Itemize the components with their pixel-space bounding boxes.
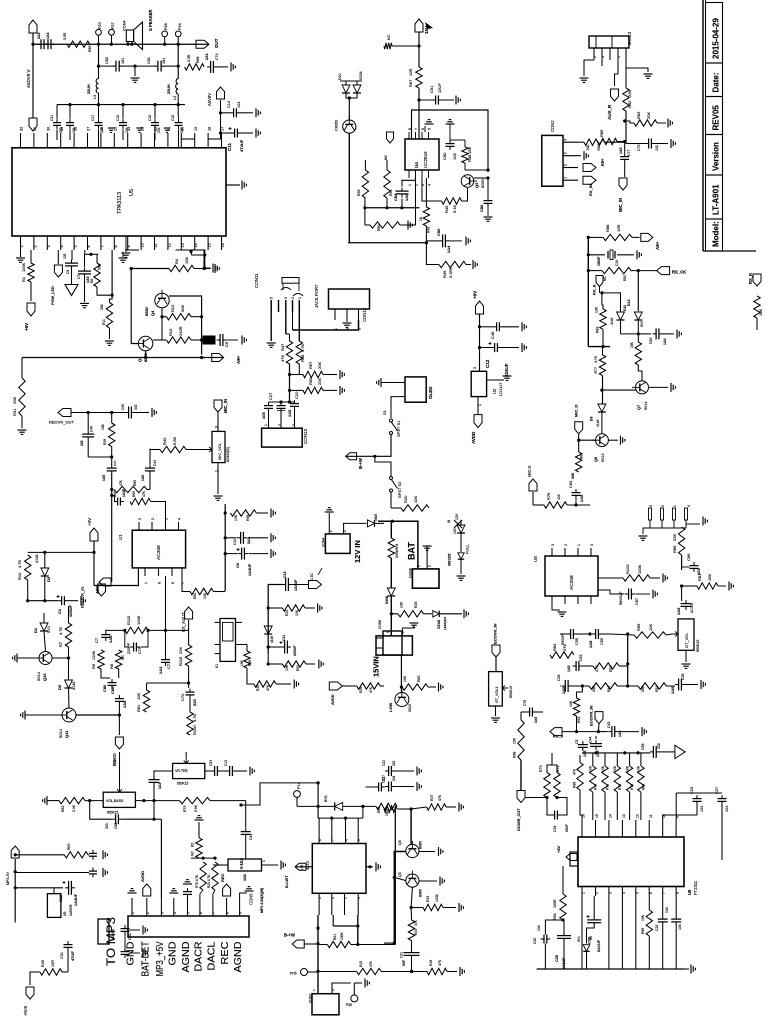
svg-text:NC: NC — [191, 851, 195, 856]
svg-text:A9+: A9+ — [655, 241, 660, 250]
connector CON10 pins — [649, 508, 652, 520]
capacitor C11b 220UF — [268, 646, 281, 648]
capacitor C60 1A5 — [115, 698, 124, 700]
ground under GT_VOL1 — [495, 706, 497, 716]
svg-text:REC: REC — [220, 942, 231, 965]
svg-text:S1: S1 — [382, 409, 387, 415]
connector CON5 — [128, 916, 249, 937]
switch S1 SPST — [390, 419, 393, 422]
svg-text:MIC_D: MIC_D — [574, 404, 579, 417]
resistor R87 33K — [576, 452, 582, 472]
svg-text:1A4F: 1A4F — [122, 489, 126, 497]
svg-text:C5: C5 — [224, 341, 229, 347]
svg-text:B-LWT: B-LWT — [284, 875, 289, 888]
svg-text:1: 1 — [478, 404, 482, 406]
svg-text:1A4: 1A4 — [663, 339, 667, 345]
capacitor C7 1A5 — [84, 250, 86, 254]
svg-text:Q4: Q4 — [150, 310, 155, 316]
svg-text:2: 2 — [291, 297, 295, 299]
svg-text:30: 30 — [47, 127, 51, 131]
svg-text:9013: 9013 — [408, 704, 412, 712]
svg-text:8: 8 — [158, 582, 162, 584]
capacitor C62 47UF — [64, 944, 73, 946]
resistor R81 15K — [697, 583, 718, 589]
resistor R1 100K — [30, 250, 32, 263]
svg-text:MP3-5V: MP3-5V — [6, 871, 10, 885]
svg-text:CON11: CON11 — [254, 273, 259, 288]
resistor R47 47K — [286, 341, 292, 364]
display OLED — [405, 377, 426, 402]
diode BV2 — [335, 802, 343, 810]
svg-text:223: 223 — [392, 760, 396, 766]
wire feed from VR_TRE — [241, 783, 318, 805]
IC U4 UC2843 — [405, 139, 439, 170]
svg-text:10K: 10K — [758, 309, 763, 316]
svg-text:47K: 47K — [266, 684, 270, 691]
svg-text:4.7K: 4.7K — [58, 626, 63, 635]
resistor R10 4.7K — [28, 551, 45, 553]
svg-text:NC: NC — [603, 276, 607, 281]
svg-text:850K15: 850K15 — [509, 686, 513, 698]
svg-text:4T4UF: 4T4UF — [239, 139, 244, 152]
svg-text:R39: R39 — [103, 439, 107, 445]
net OUT flag — [196, 40, 209, 48]
capacitor C23 104 — [693, 798, 702, 800]
wire MP3_+5V long — [154, 818, 161, 820]
svg-text:1: 1 — [577, 544, 581, 546]
svg-text:15VIN: 15VIN — [372, 656, 381, 677]
svg-text:1A5: 1A5 — [561, 686, 566, 694]
svg-text:19: 19 — [194, 127, 198, 131]
svg-text:2: 2 — [146, 912, 150, 914]
wire R73 R72 tops — [547, 765, 557, 773]
capacitor C27 105 — [264, 405, 273, 407]
jack port connector CON12 — [329, 289, 370, 309]
svg-text:2: 2 — [593, 56, 597, 58]
svg-text:15K: 15K — [101, 423, 105, 430]
svg-text:CON12: CON12 — [362, 307, 367, 322]
net A9+ flag — [146, 351, 224, 358]
capacitor C79 220PF — [133, 643, 135, 652]
IC U5 TPA3113 body — [12, 148, 226, 236]
svg-text:223: 223 — [192, 699, 197, 706]
wire R70 R23 row — [191, 857, 217, 859]
svg-text:K0463[B]: K0463[B] — [226, 447, 230, 462]
svg-text:220UF: 220UF — [293, 645, 297, 656]
net REOVR_OUT flag — [58, 409, 71, 417]
svg-text:1: 1 — [298, 297, 302, 299]
svg-text:1A3: 1A3 — [158, 666, 163, 674]
svg-text:0UF: 0UF — [402, 960, 406, 966]
svg-text:C53: C53 — [209, 760, 213, 766]
transistor Q10 9014 — [36, 652, 53, 665]
svg-text:U2: U2 — [492, 388, 497, 394]
net REOVR_IN flag — [99, 578, 111, 586]
U4 pins top — [408, 132, 410, 139]
resistor R48 15K — [462, 147, 468, 163]
resistor R36 — [384, 170, 390, 198]
resistor R27 47K — [427, 804, 446, 810]
svg-text:12V IN: 12V IN — [353, 540, 362, 563]
svg-text:1: 1 — [312, 989, 316, 991]
svg-text:C43: C43 — [153, 460, 157, 466]
svg-text:4.7K: 4.7K — [595, 664, 599, 672]
svg-text:7: 7 — [662, 892, 666, 894]
svg-text:R60: R60 — [308, 377, 313, 385]
ground right of R83 — [657, 122, 666, 124]
resistor R81b 10K — [143, 690, 149, 712]
wire caps rail — [269, 401, 295, 403]
OLED pin2 wire — [391, 397, 405, 418]
svg-text:CON13: CON13 — [303, 428, 308, 444]
transistor Q3 8050 — [461, 175, 477, 188]
svg-text:20K: 20K — [646, 112, 651, 119]
wires caps to CON13 — [268, 411, 270, 428]
svg-text:100K: 100K — [136, 615, 141, 625]
svg-text:10R: 10R — [51, 960, 55, 967]
diode D12 4148 — [617, 312, 625, 320]
svg-text:R2: R2 — [191, 843, 195, 847]
svg-text:10K: 10K — [136, 693, 141, 700]
svg-text:AGND: AGND — [233, 942, 244, 973]
ground under C7 — [84, 277, 86, 302]
svg-text:R81: R81 — [697, 573, 702, 581]
transistor Q2 C8050 — [348, 98, 350, 120]
wire R56 to pot arrow — [666, 634, 672, 635]
speaker CON4 — [126, 30, 133, 42]
pot VR_TRE — [173, 763, 205, 778]
net 15V flag — [415, 19, 423, 32]
resistor R12 30K — [166, 314, 191, 320]
ground right of C83b — [662, 333, 674, 335]
svg-text:REOVR_OUT: REOVR_OUT — [49, 420, 74, 425]
wire CON12 pin3 loop — [293, 320, 359, 330]
net B-+W flag 2 — [292, 940, 304, 948]
capacitor row2 — [15, 872, 89, 874]
pot VOL_BASS — [103, 792, 135, 807]
svg-text:100K: 100K — [435, 893, 439, 902]
svg-text:15K: 15K — [707, 574, 712, 581]
svg-text:B-+W: B-+W — [284, 933, 295, 938]
svg-text:RTE: RTE — [630, 784, 634, 790]
svg-text:MP3_+5V: MP3_+5V — [155, 941, 166, 976]
svg-text:R8: R8 — [90, 279, 94, 283]
svg-text:15K: 15K — [513, 737, 517, 744]
svg-text:DC05R_OUT: DC05R_OUT — [517, 808, 521, 831]
capacitor C44 — [590, 743, 602, 745]
svg-text:R92: R92 — [623, 275, 627, 281]
svg-text:102: 102 — [655, 145, 659, 151]
net RX_IN flag — [583, 176, 596, 184]
svg-text:3: 3 — [601, 56, 605, 58]
svg-text:22K: 22K — [178, 647, 183, 654]
svg-text:C17: C17 — [91, 115, 95, 121]
svg-text:11: 11 — [154, 244, 158, 248]
svg-text:C20: C20 — [294, 391, 299, 399]
svg-text:R15: R15 — [359, 961, 363, 967]
resistor R66b 15K — [648, 896, 650, 910]
svg-text:R52: R52 — [577, 717, 581, 723]
svg-text:181: 181 — [121, 58, 125, 64]
svg-text:C79: C79 — [138, 647, 142, 654]
capacitor C10a 2A2 — [40, 39, 42, 49]
svg-text:R7: R7 — [58, 641, 63, 647]
svg-text:10R: 10R — [616, 225, 621, 232]
IC U5 pins top row — [20, 133, 22, 148]
svg-text:VR.TRE: VR.TRE — [175, 769, 189, 773]
ground right of C38R — [685, 684, 699, 686]
resistor R79 5.6K — [179, 797, 210, 803]
svg-text:R23 4.7K: R23 4.7K — [207, 874, 211, 888]
ground right of R27 — [446, 806, 456, 808]
capacitor C54 854 — [15, 854, 64, 856]
svg-text:10K: 10K — [586, 144, 590, 151]
net B-LWT flag — [295, 866, 312, 868]
capacitor C10 2A2 — [225, 537, 236, 539]
resistor R92 NC — [602, 267, 631, 273]
svg-text:C34: C34 — [553, 826, 557, 832]
net OB-30 flag — [118, 715, 120, 735]
ground right of C90 — [449, 240, 463, 242]
diode D10 SS34 — [342, 85, 350, 93]
resistor R76 1M — [544, 502, 567, 508]
resistor R18 47K — [427, 968, 447, 974]
IC U3 4413 — [312, 844, 366, 894]
ground right of C75 — [670, 139, 672, 148]
capacitor C7b 1A5 — [101, 634, 110, 636]
capacitor C80b — [101, 669, 110, 678]
LED CEA8 — [433, 611, 439, 617]
resistor R115 22K — [185, 645, 191, 666]
svg-text:R45: R45 — [444, 205, 449, 213]
ground between C81 C82 — [134, 66, 136, 76]
svg-text:1A4UF: 1A4UF — [74, 893, 78, 906]
resistor R100 4.7K — [187, 712, 193, 735]
ground right of C74 — [217, 66, 229, 68]
title block frame line — [702, 0, 704, 251]
svg-text:1A5: 1A5 — [141, 475, 145, 481]
svg-text:1A5: 1A5 — [122, 700, 127, 708]
ground right of R4 — [194, 268, 210, 270]
svg-text:R46: R46 — [300, 354, 305, 362]
svg-text:11: 11 — [649, 814, 653, 818]
IC U1 AC358 — [132, 530, 185, 568]
capacitor C45e 1A5 — [107, 467, 117, 469]
svg-text:3: 3 — [47, 245, 51, 247]
wire left branch — [131, 269, 169, 344]
resistor R83c — [64, 852, 88, 858]
ground right of R63 — [428, 686, 436, 688]
svg-text:RX_0: RX_0 — [553, 734, 564, 739]
svg-text:R65: R65 — [377, 807, 381, 813]
capacitor C31 10UF — [404, 952, 420, 954]
resistor R52 10K — [577, 686, 583, 698]
svg-text:RX_CK: RX_CK — [672, 270, 686, 275]
svg-text:C41: C41 — [249, 834, 253, 840]
svg-text:R110: R110 — [126, 615, 131, 625]
ground above C80 — [446, 123, 455, 125]
svg-text:14: 14 — [194, 243, 198, 247]
capacitor C43 1A5 — [149, 449, 151, 465]
svg-text:5: 5 — [270, 297, 274, 299]
svg-text:47K: 47K — [562, 644, 567, 651]
svg-text:RX_K: RX_K — [592, 284, 597, 295]
resistor R8 9K — [116, 650, 122, 669]
resistor R20 10K — [390, 492, 392, 508]
svg-text:4: 4 — [178, 518, 182, 520]
svg-text:R45: R45 — [41, 960, 45, 967]
resistor R31 20K — [21, 358, 23, 379]
net +6V flag down — [30, 282, 32, 301]
svg-text:+5V: +5V — [87, 518, 92, 526]
diode D11 SS34 — [353, 85, 361, 93]
svg-text:10K: 10K — [400, 601, 404, 608]
speaker output rail — [33, 43, 209, 45]
capacitor C79b 1A5 — [529, 708, 531, 717]
resistor R23 4.7K — [212, 862, 218, 890]
resistor R68 3.9R — [185, 64, 205, 70]
svg-text:100K: 100K — [340, 931, 344, 940]
resistor R11 20K — [110, 295, 113, 302]
resistor R45 5.1K — [442, 198, 462, 204]
svg-text:9014: 9014 — [601, 454, 605, 462]
wire to U1 pin3 — [151, 502, 166, 523]
wire Q10 to R7 — [52, 657, 69, 659]
svg-text:1: 1 — [617, 56, 621, 58]
net ECOVR_IN flag left — [492, 645, 500, 657]
resistor R94 10K — [584, 139, 605, 145]
capacitor C91 10UF — [435, 96, 437, 105]
svg-text:15K: 15K — [467, 147, 472, 154]
capacitor C38 right 1A5 — [678, 679, 680, 691]
svg-text:4: 4 — [564, 139, 568, 141]
U8 pins — [551, 548, 553, 556]
net B-+W flag — [346, 453, 357, 460]
svg-text:3: 3 — [284, 297, 288, 299]
no-connect X mark — [454, 520, 462, 528]
capacitor C16 224 — [119, 122, 127, 124]
svg-text:28K: 28K — [641, 685, 645, 692]
svg-text:L3: L3 — [93, 95, 97, 99]
capacitor C17 223 — [95, 122, 103, 124]
ground right of C12 — [501, 347, 520, 349]
net A5DV8V flag top-left — [29, 20, 37, 33]
svg-text:8050: 8050 — [419, 841, 423, 849]
resistor R2 NC — [195, 819, 204, 821]
wire pin bridges under U5 — [20, 250, 22, 257]
battery connector CON8 — [412, 569, 439, 588]
svg-text:IN: IN — [447, 519, 451, 523]
svg-text:10K: 10K — [595, 306, 599, 313]
wire R67 to U4 — [418, 88, 420, 139]
svg-text:C81: C81 — [147, 57, 151, 64]
svg-text:BV2: BV2 — [324, 795, 328, 802]
ground above CON4 pin1 — [328, 513, 330, 534]
wire S1 to B-+W — [346, 435, 391, 457]
svg-text:ADC: ADC — [95, 585, 100, 594]
wire Q3 collector — [474, 177, 488, 179]
ground under U5 pins 15 16 — [204, 250, 206, 268]
ground pin1 — [16, 257, 25, 259]
net MP3-5V rail — [11, 846, 19, 858]
capacitor C15 223 — [175, 122, 183, 124]
resistor R57 20K — [303, 371, 323, 377]
net POW_LED flag — [57, 250, 59, 264]
resistor R85b 47K — [114, 486, 147, 492]
capacitor C14 104 — [233, 108, 235, 117]
svg-text:16: 16 — [582, 814, 586, 818]
svg-text:R27: R27 — [430, 795, 434, 801]
net +5V8 flag bottom — [30, 972, 40, 985]
svg-text:R86: R86 — [573, 782, 577, 788]
svg-text:R49: R49 — [246, 515, 250, 521]
svg-text:RE0: RE0 — [67, 843, 71, 850]
wire pin1 to R46 — [298, 312, 300, 341]
svg-text:BAT: BAT — [407, 542, 417, 560]
svg-text:R71: R71 — [606, 784, 610, 790]
capacitor C30 104 — [543, 935, 545, 944]
svg-text:5: 5 — [428, 128, 432, 130]
CON12 pins — [334, 309, 336, 320]
capacitor C? at pin4 — [169, 892, 178, 894]
net RX_L flag — [387, 132, 394, 143]
svg-text:R40: R40 — [162, 437, 167, 445]
U6 pins top — [581, 820, 583, 837]
regulator VR1 — [98, 919, 109, 944]
svg-text:R53: R53 — [609, 666, 613, 672]
svg-text:10K: 10K — [234, 514, 238, 521]
svg-text:10K: 10K — [203, 592, 207, 599]
svg-text:P23: P23 — [98, 22, 102, 29]
resistor R17 1K — [384, 806, 397, 812]
wire C13b left chain — [268, 585, 282, 654]
svg-text:CON2: CON2 — [550, 120, 555, 132]
ground right of Q5 — [419, 880, 437, 882]
svg-text:AVDD: AVDD — [140, 871, 145, 882]
ground right of R25b — [276, 683, 291, 685]
svg-text:V-10A: V-10A — [239, 858, 244, 870]
svg-text:8050: 8050 — [480, 178, 485, 188]
ground right of P40 — [354, 982, 362, 984]
svg-text:C14: C14 — [227, 101, 231, 108]
resistor R25b 47K — [247, 668, 254, 684]
svg-text:C55: C55 — [575, 638, 579, 645]
capacitor C36 332 — [128, 407, 130, 419]
svg-text:REOVR_IN: REOVR_IN — [80, 587, 85, 608]
ground at CON5 pin1 — [128, 892, 137, 894]
svg-text:1A5: 1A5 — [676, 607, 681, 615]
resistor R41 28K — [589, 683, 617, 689]
svg-text:850K15: 850K15 — [177, 782, 189, 786]
capacitor C29 104 — [718, 798, 727, 800]
test point P14 — [294, 791, 301, 798]
wire Q4 collector rail — [169, 296, 202, 355]
svg-text:3: 3 — [551, 544, 555, 546]
svg-text:4.7K: 4.7K — [594, 355, 598, 363]
svg-text:C85: C85 — [114, 823, 118, 829]
CON2 pins — [563, 141, 578, 143]
connector CON4 12V IN — [325, 534, 350, 554]
svg-text:R66: R66 — [672, 545, 677, 553]
resistor R49 0.25R — [439, 261, 466, 267]
test point P23 — [96, 29, 102, 35]
wire Q2 down — [348, 133, 350, 243]
capacitor C53 5900P — [570, 629, 572, 639]
svg-text:SPST S2: SPST S2 — [397, 481, 402, 498]
ground right of C5 — [227, 339, 239, 341]
svg-text:R42: R42 — [627, 100, 632, 108]
svg-text:1A5: 1A5 — [670, 686, 675, 694]
